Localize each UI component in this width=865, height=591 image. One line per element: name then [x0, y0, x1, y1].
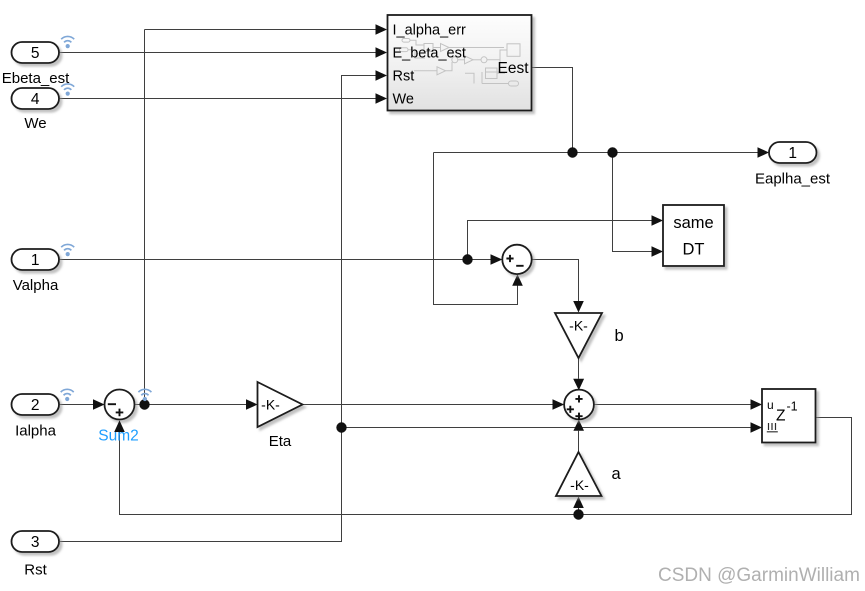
svg-text:E_beta_est: E_beta_est — [393, 46, 466, 62]
inport 5 — [12, 42, 60, 63]
same DT block — [663, 205, 724, 266]
wire from port 5 to E_beta_est — [59, 52, 376, 54]
sum U3 minus sign — [516, 265, 523, 267]
wire port 2 to Sum2 — [60, 404, 94, 406]
junction Eest node A — [567, 147, 577, 157]
outport 1 Eaplha_est — [769, 142, 817, 163]
svg-text:-K-: -K- — [570, 477, 589, 493]
wire Sum2 output to gain Eta — [135, 404, 247, 406]
arrowhead into sum U3 left — [491, 254, 503, 265]
gain b — [555, 313, 602, 358]
arrowhead into subsystem Rst — [376, 70, 388, 81]
arrowhead into subsystem E_beta_est — [376, 47, 388, 58]
arrowhead into gain a bottom — [573, 497, 584, 509]
svg-text:a: a — [612, 465, 622, 483]
svg-text:u: u — [767, 398, 774, 412]
wire feedback from unit delay output to Sum2 and gain a — [120, 418, 852, 515]
wire Valpha branch up to same DT input 1 — [468, 221, 652, 260]
wire from Eest node down to same DT input 2 — [613, 153, 652, 252]
svg-text:CSDN @GarminWilliam: CSDN @GarminWilliam — [658, 565, 860, 586]
big sum bottom plus — [575, 413, 582, 420]
svg-text:Eaplha_est: Eaplha_est — [755, 170, 831, 187]
svg-text:We: We — [24, 115, 46, 132]
svg-text:-1: -1 — [787, 399, 798, 413]
arrowhead into Sum2 bottom — [114, 420, 125, 432]
wire big sum output to unit delay — [594, 404, 751, 406]
big sum left plus — [567, 406, 574, 413]
arrowhead into Sum2 left — [93, 399, 105, 410]
gain a — [556, 452, 602, 496]
svg-text:We: We — [393, 92, 415, 108]
svg-text:3: 3 — [31, 534, 40, 551]
svg-text:4: 4 — [31, 91, 40, 108]
wire from port 3 Rst up to subsystem Rst input — [60, 76, 376, 542]
logging badge port 5 — [61, 36, 74, 48]
junction Eest node B — [607, 147, 617, 157]
arrowhead into Eaplha_est port — [758, 147, 770, 158]
svg-text:DT: DT — [683, 241, 705, 259]
svg-text:5: 5 — [31, 45, 40, 62]
sum U3 — [502, 245, 531, 274]
junction on Rst vertical — [336, 422, 346, 432]
wire I_alpha_err top — [145, 29, 376, 31]
inport 3 Rst — [12, 531, 60, 552]
big sum U5 — [564, 390, 594, 420]
wire feedback from Eest node down to sum U3 minus input — [434, 153, 518, 305]
arrowhead into gain Eta — [246, 399, 258, 410]
sum U3 plus sign — [506, 255, 513, 262]
unit delay reset icon — [767, 423, 778, 432]
arrowhead into sum U3 bottom — [512, 274, 523, 286]
logging badge port 2 — [61, 389, 74, 401]
arrowhead into unit delay reset input — [751, 422, 763, 433]
junction on Valpha wire — [462, 254, 472, 264]
arrowhead into same DT input 1 — [652, 215, 664, 226]
svg-text:Valpha: Valpha — [13, 277, 59, 294]
svg-text:b: b — [615, 327, 624, 345]
wire gain b output to big sum — [578, 358, 580, 379]
logging badge Sum2 output — [138, 389, 151, 401]
subsystem preview sketch — [400, 39, 521, 87]
svg-text:2: 2 — [31, 397, 40, 414]
wire Rst branch to unit delay reset port — [342, 427, 751, 429]
svg-text:1: 1 — [31, 252, 40, 269]
arrowhead into gain b top — [573, 301, 584, 313]
arrowhead into same DT input 2 — [652, 246, 664, 257]
arrowhead into big sum left — [553, 399, 565, 410]
svg-text:Ebeta_est: Ebeta_est — [2, 70, 70, 87]
svg-text:Z: Z — [776, 408, 785, 425]
inport 2 Ialpha — [12, 394, 60, 415]
junction on feedback wire under gain a — [573, 509, 583, 519]
Sum2 — [105, 390, 135, 420]
wire from port 1 Valpha to sum U3 — [59, 259, 491, 261]
unit delay block — [762, 389, 816, 443]
svg-text:-K-: -K- — [261, 397, 280, 413]
arrowhead into subsystem I_alpha_err — [376, 24, 388, 35]
svg-text:Rst: Rst — [24, 562, 47, 579]
Sum2 minus sign — [108, 403, 116, 405]
logging badge port 4 — [61, 84, 74, 96]
wire sum U3 output to gain b — [532, 260, 579, 302]
Sum2 plus sign — [116, 409, 124, 417]
arrowhead into unit delay input u — [751, 399, 763, 410]
svg-text:same: same — [673, 214, 713, 232]
arrowhead into big sum top — [573, 379, 584, 390]
svg-text:I_alpha_err: I_alpha_err — [393, 23, 467, 39]
svg-text:-K-: -K- — [569, 317, 588, 333]
inport 4 — [12, 88, 60, 109]
big sum top plus — [575, 395, 582, 402]
svg-text:Eest: Eest — [497, 60, 529, 77]
gain Eta — [258, 382, 303, 427]
wire vertical from top wire to Ialpha row — [144, 30, 146, 405]
logging badge port 1 — [61, 244, 74, 256]
subsystem U1 — [388, 15, 532, 111]
arrowhead into subsystem We — [376, 93, 388, 104]
wire gain a output to big sum bottom — [578, 431, 580, 452]
svg-text:Rst: Rst — [393, 69, 415, 85]
arrowhead into big sum bottom — [573, 420, 584, 431]
svg-text:Ialpha: Ialpha — [15, 423, 57, 440]
svg-text:1: 1 — [788, 145, 797, 162]
wire Eest output to Eaplha_est — [434, 68, 758, 153]
wire gain Eta output to big sum — [303, 404, 553, 406]
wire from port 4 to We — [59, 98, 376, 100]
junction on Sum2 output — [139, 399, 149, 409]
svg-text:Eta: Eta — [269, 433, 292, 450]
inport 1 Valpha — [12, 249, 60, 270]
